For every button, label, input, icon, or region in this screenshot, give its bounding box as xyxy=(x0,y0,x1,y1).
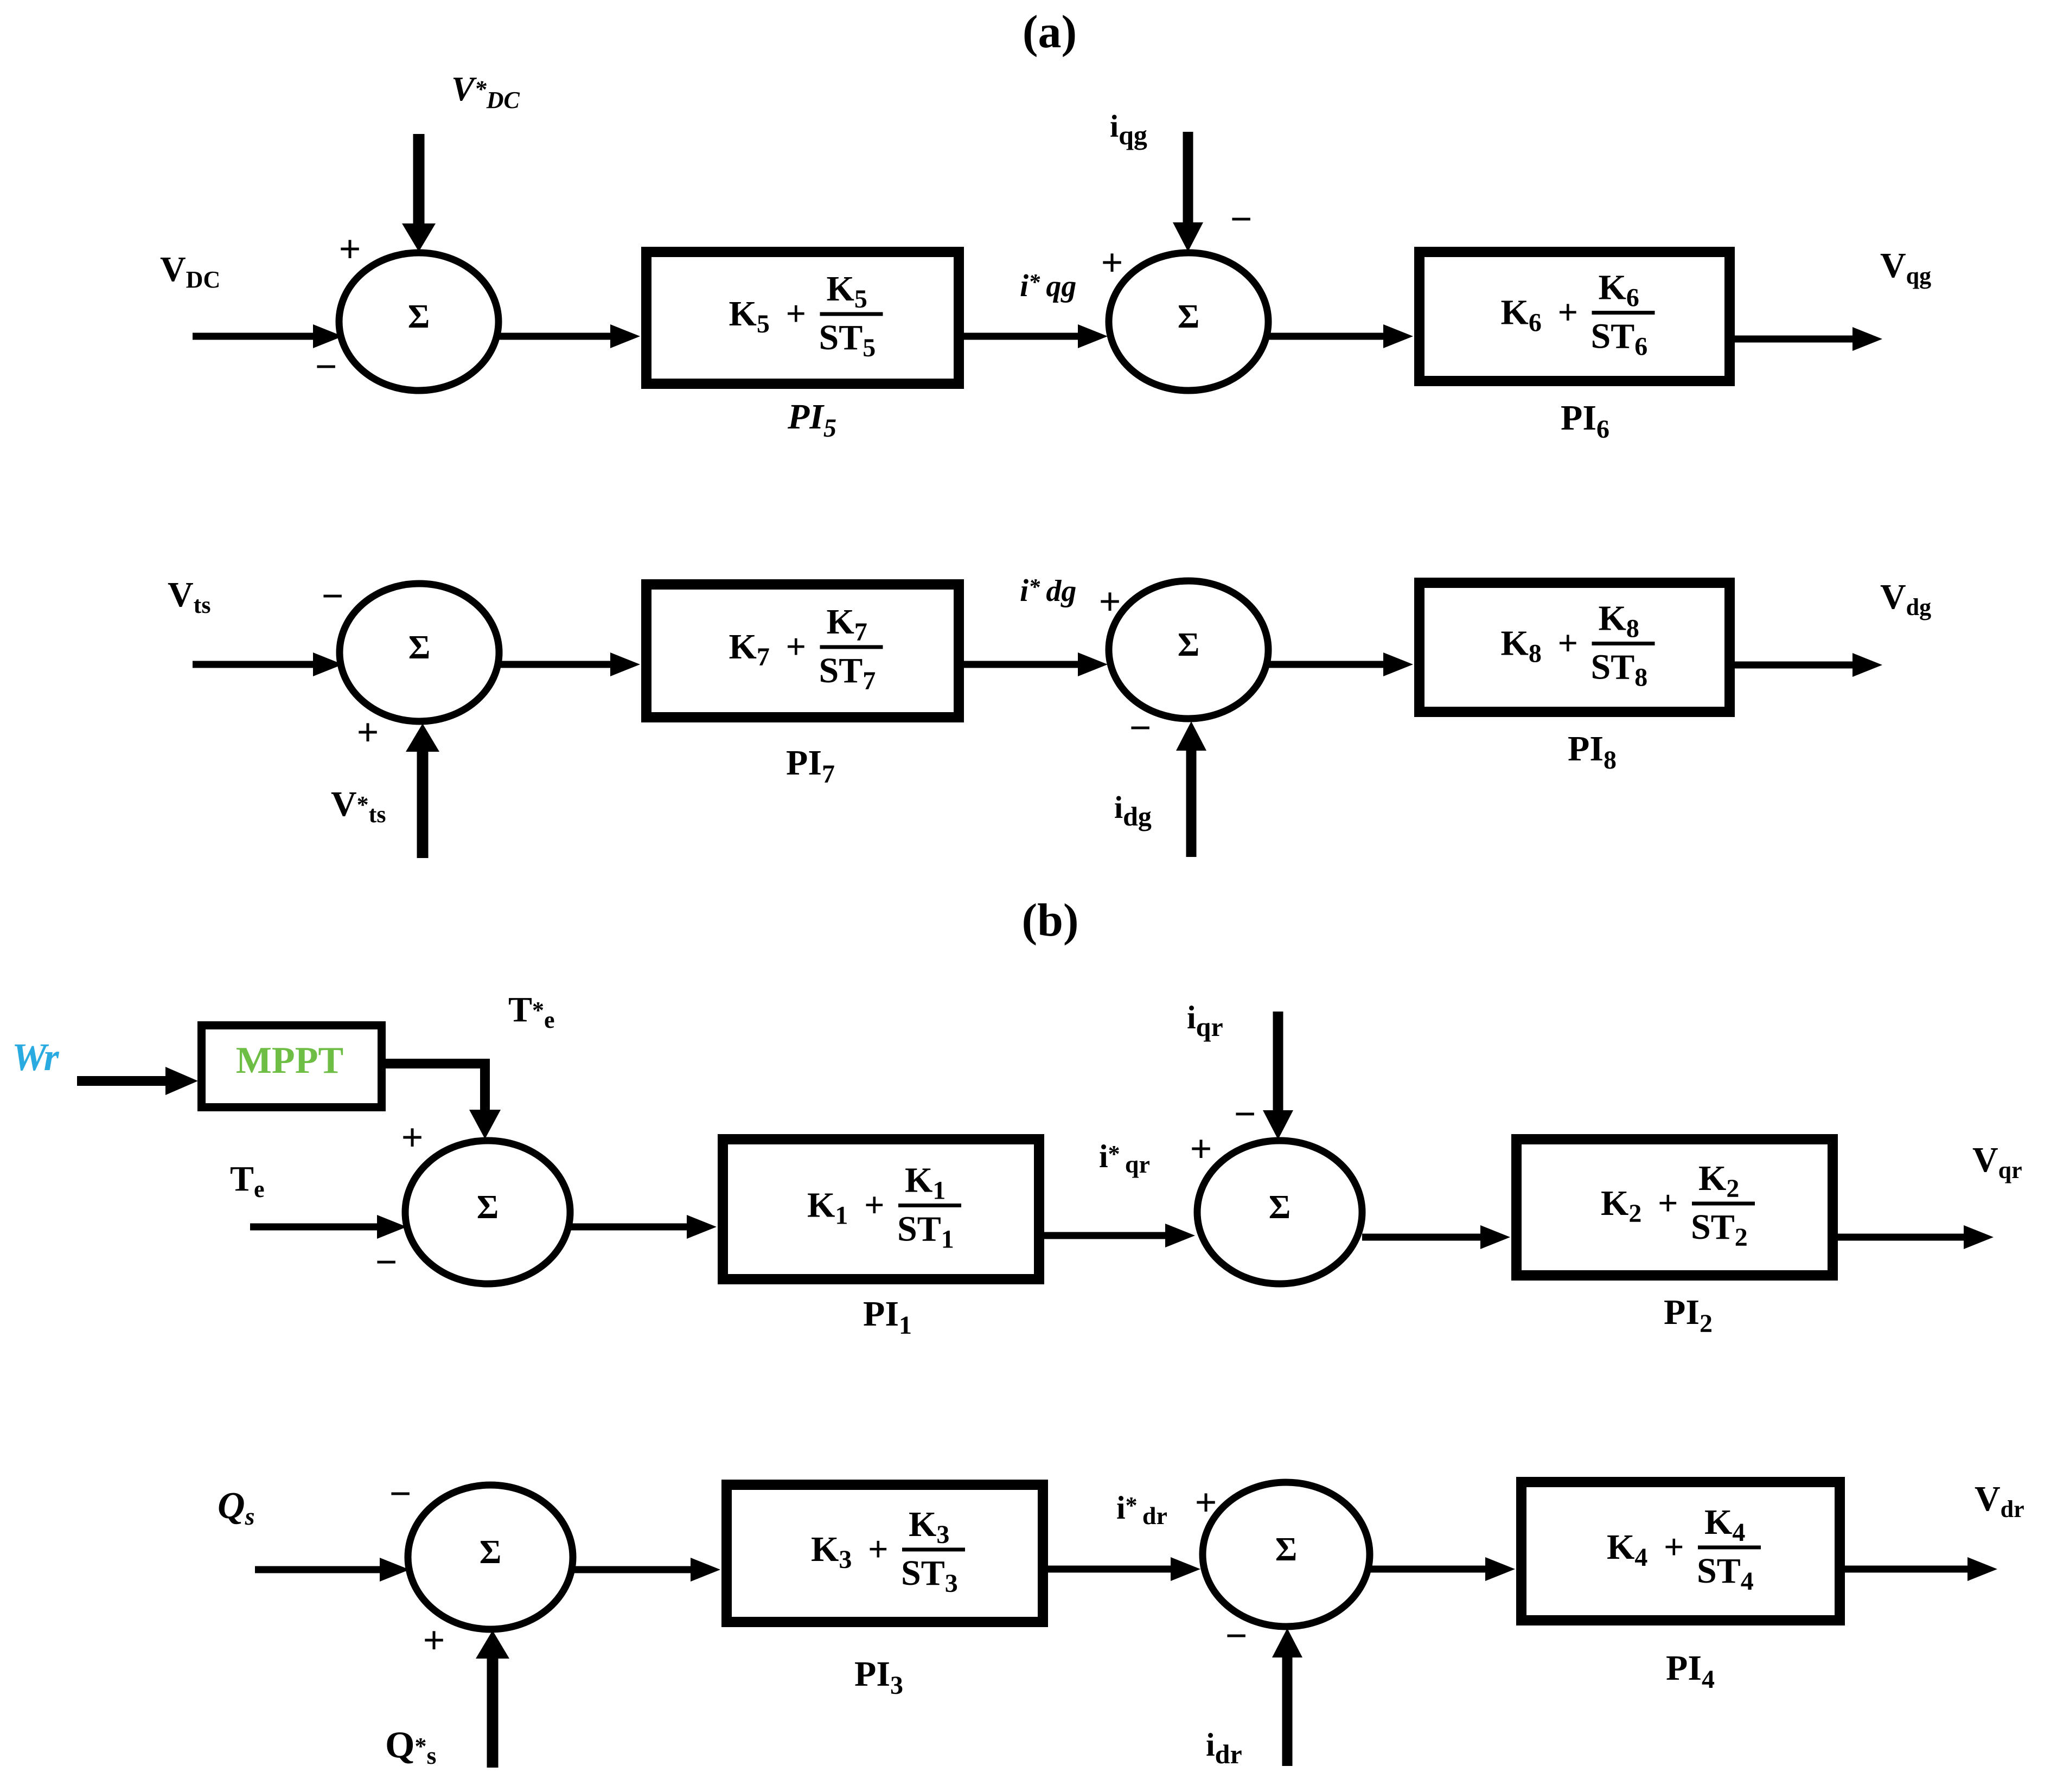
wire PI6 output arrow xyxy=(1735,327,1882,351)
summing junction S1 xyxy=(339,253,499,391)
PI block K4+K4/ST4 xyxy=(1522,1482,1840,1621)
wire V_DC input arrow xyxy=(193,324,343,348)
svg-text:+: + xyxy=(1101,241,1123,284)
wire Wr to MPPT arrow xyxy=(77,1067,198,1095)
wire Q_s input arrow xyxy=(255,1558,410,1582)
svg-text:−: − xyxy=(315,345,337,388)
svg-text:i* qg: i* qg xyxy=(1020,268,1076,303)
wire PI4 output arrow xyxy=(1845,1557,1997,1581)
wire S4 to PI8 block xyxy=(1268,652,1413,676)
svg-text:−: − xyxy=(389,1472,411,1515)
summing junction S2 xyxy=(1109,253,1268,391)
wire S7 to PI3 block xyxy=(573,1558,720,1582)
wire PI1 to summer S6 xyxy=(1044,1224,1195,1247)
svg-text:+: + xyxy=(401,1116,423,1159)
wire S6 to PI2 block xyxy=(1362,1225,1510,1249)
svg-text:−: − xyxy=(375,1240,397,1284)
svg-text:−: − xyxy=(321,574,343,618)
svg-text:+: + xyxy=(338,227,361,271)
svg-text:i* dg: i* dg xyxy=(1020,573,1076,608)
wire PI5 to summer S2 xyxy=(964,324,1108,348)
svg-text:Σ: Σ xyxy=(1178,298,1200,335)
PI block K6+K6/ST6 xyxy=(1420,252,1730,381)
svg-text:+: + xyxy=(1190,1127,1212,1170)
PI block K7+K7/ST7 xyxy=(647,585,959,718)
PI block K1+K1/ST1 xyxy=(723,1140,1039,1279)
svg-text:(b): (b) xyxy=(1021,894,1078,946)
wire V*_ts up arrow xyxy=(406,724,439,858)
summing junction S5 xyxy=(405,1141,570,1284)
svg-text:Σ: Σ xyxy=(1275,1531,1298,1568)
summing junction S6 xyxy=(1197,1141,1362,1284)
svg-text:Σ: Σ xyxy=(408,298,430,335)
summing junction S4 xyxy=(1109,581,1268,719)
PI block K3+K3/ST3 xyxy=(727,1485,1043,1622)
summing junction S7 xyxy=(408,1485,573,1629)
svg-text:Σ: Σ xyxy=(1178,626,1200,663)
svg-text:−: − xyxy=(1230,197,1252,241)
wire i_qr down arrow xyxy=(1263,1012,1293,1140)
wire S2 to PI6 block xyxy=(1268,324,1413,348)
summing junction S8 xyxy=(1203,1482,1370,1627)
svg-text:Σ: Σ xyxy=(480,1534,502,1571)
wire Q*_s up arrow xyxy=(476,1630,509,1768)
wire V*_DC down arrow xyxy=(402,134,436,252)
PI block K5+K5/ST5 xyxy=(647,252,959,384)
svg-text:(a): (a) xyxy=(1023,5,1077,57)
wire V_ts input arrow xyxy=(193,652,343,676)
MPPT block xyxy=(202,1026,382,1108)
svg-text:Σ: Σ xyxy=(408,629,431,666)
wire PI7 to summer S4 xyxy=(964,652,1108,676)
wire PI2 output arrow xyxy=(1838,1225,1994,1249)
svg-text:−: − xyxy=(1234,1092,1256,1136)
wire i_qg down arrow xyxy=(1173,132,1203,252)
wire PI8 output arrow xyxy=(1735,653,1882,677)
wire i_dr up arrow xyxy=(1272,1628,1302,1766)
PI block K2+K2/ST2 xyxy=(1517,1140,1833,1276)
wire S3 to PI7 block xyxy=(499,652,640,676)
wire MPPT elbow to summer S5 xyxy=(382,1064,501,1139)
svg-text:−: − xyxy=(1225,1614,1247,1657)
wire S8 to PI4 block xyxy=(1370,1557,1515,1581)
summing junction S3 xyxy=(340,584,499,721)
wire S1 to PI5 block xyxy=(499,324,640,348)
wire T_e input arrow xyxy=(250,1215,407,1239)
svg-text:MPPT: MPPT xyxy=(236,1040,343,1081)
PI block K8+K8/ST8 xyxy=(1420,583,1730,712)
wire S5 to PI1 block xyxy=(570,1215,717,1239)
svg-text:Σ: Σ xyxy=(1269,1189,1291,1226)
svg-text:−: − xyxy=(1129,706,1151,750)
svg-text:Wr: Wr xyxy=(12,1035,60,1079)
wire i_dg up arrow xyxy=(1176,721,1206,857)
svg-text:+: + xyxy=(356,711,379,754)
wire PI3 to summer S8 xyxy=(1048,1557,1200,1581)
svg-text:+: + xyxy=(423,1618,445,1662)
svg-text:Σ: Σ xyxy=(477,1189,499,1226)
